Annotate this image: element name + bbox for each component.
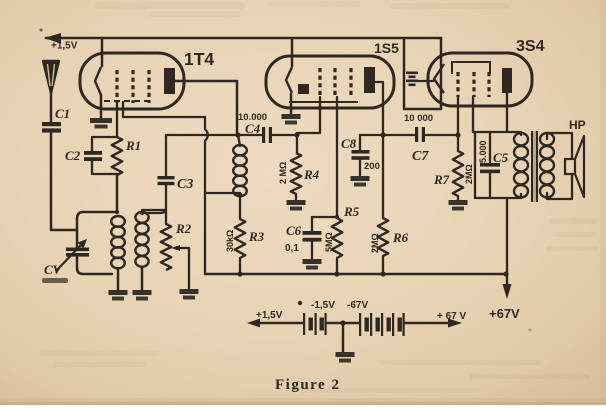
resistor R6 bbox=[370, 218, 409, 277]
tube 1S5 bbox=[266, 56, 394, 108]
wire to R3 node bbox=[205, 193, 242, 198]
ground R4 bbox=[287, 200, 306, 211]
wire secondary to speaker bbox=[547, 133, 572, 199]
wire 3S4 grid1 to C7 node bbox=[457, 97, 459, 135]
svg-text:1S5: 1S5 bbox=[374, 40, 399, 56]
junction C3 coil L2 bbox=[140, 211, 144, 215]
coil L1 tuning bbox=[111, 216, 125, 290]
label 1S5 bbox=[374, 40, 399, 56]
wire C3 to C4 node bbox=[166, 134, 238, 136]
wire filament feed 1S5 bbox=[291, 38, 294, 66]
wire 1S5 grid2 to R5 bbox=[336, 97, 338, 218]
wire battery right +67V bbox=[405, 319, 462, 328]
label battery +1,5V bbox=[256, 310, 283, 321]
svg-text:3S4: 3S4 bbox=[516, 38, 545, 55]
resistor R5 bbox=[324, 204, 360, 277]
transformer secondary bbox=[540, 133, 554, 197]
junction C6-R5 bbox=[335, 215, 339, 219]
capacitor C8 bbox=[341, 135, 383, 176]
battery B 67V bbox=[359, 313, 405, 336]
ground C8 bbox=[351, 176, 370, 187]
svg-text:+1,5V: +1,5V bbox=[256, 310, 283, 321]
ground C6 bbox=[303, 259, 322, 270]
svg-text:C3: C3 bbox=[177, 177, 193, 192]
wire 3S4 screen down bbox=[472, 97, 474, 132]
label +1,5V bbox=[51, 41, 78, 52]
wire output bottom rail bbox=[475, 197, 521, 199]
svg-text:R1: R1 bbox=[125, 138, 141, 153]
svg-text:-1,5V: -1,5V bbox=[311, 300, 335, 311]
ground R2 wiper bbox=[180, 289, 199, 300]
label 3S4 bbox=[516, 38, 545, 55]
svg-text:2MΩ: 2MΩ bbox=[370, 233, 380, 253]
ground coil L1 bbox=[109, 290, 128, 301]
wire output left leg bbox=[474, 132, 476, 198]
label battery +67V bbox=[437, 311, 467, 322]
capacitor C6 bbox=[285, 217, 337, 259]
resistor R7 bbox=[433, 135, 474, 200]
battery A 1.5V bbox=[303, 313, 327, 335]
wire 1T4 anode bbox=[175, 81, 237, 133]
wire 1S5 anode down bbox=[375, 82, 386, 218]
tank loop bottom bbox=[77, 268, 112, 274]
svg-text:+67V: +67V bbox=[489, 306, 520, 321]
filament battery tap bbox=[406, 72, 418, 87]
transformer core bbox=[531, 131, 538, 202]
potentiometer R2 bbox=[142, 210, 192, 270]
wire +67V bus bbox=[205, 273, 506, 276]
coil L2 antenna coupling bbox=[135, 212, 148, 290]
svg-text:+ 67 V: + 67 V bbox=[437, 311, 467, 322]
wire R1 to tank coil bbox=[115, 175, 119, 214]
svg-text:200: 200 bbox=[364, 161, 380, 172]
svg-text:HP: HP bbox=[569, 118, 586, 132]
capacitor C2 bbox=[65, 137, 117, 174]
svg-text:5.000: 5.000 bbox=[478, 140, 488, 163]
svg-text:+1,5V: +1,5V bbox=[51, 41, 78, 52]
svg-text:Figure 2: Figure 2 bbox=[275, 377, 340, 393]
tube 3S4 bbox=[428, 53, 532, 106]
wire battery middle bbox=[327, 320, 359, 325]
capacitor C1 bbox=[42, 106, 70, 133]
resistor R4 bbox=[278, 153, 320, 200]
svg-text:-67V: -67V bbox=[347, 300, 368, 311]
coil L3 oscillator bbox=[233, 135, 247, 219]
label 1T4 bbox=[184, 49, 214, 69]
ground R7 bbox=[449, 200, 468, 211]
svg-text:C7: C7 bbox=[412, 149, 429, 164]
svg-text:C4: C4 bbox=[245, 121, 261, 136]
svg-text:CV: CV bbox=[44, 262, 63, 277]
ground 1S5 filament bbox=[282, 94, 301, 125]
resistor R3 bbox=[225, 219, 265, 277]
label -1,5V bbox=[298, 300, 335, 311]
capacitor C4 bbox=[235, 127, 299, 143]
wire 1S5 grid1 to R4 bbox=[297, 97, 320, 153]
resistor R1 bbox=[112, 137, 141, 175]
wire 1T4 grid to R1 bbox=[116, 103, 118, 137]
wire +1.5V filament rail bbox=[44, 33, 441, 44]
R2 wiper bbox=[171, 245, 189, 289]
svg-text:R7: R7 bbox=[433, 172, 450, 187]
svg-text:R2: R2 bbox=[175, 221, 192, 236]
svg-text:30kΩ: 30kΩ bbox=[225, 230, 235, 252]
label +67V bold bbox=[489, 306, 520, 321]
wire 3S4 filament box bbox=[404, 38, 441, 109]
svg-text:C1: C1 bbox=[55, 106, 70, 121]
ground battery bbox=[336, 323, 355, 363]
antenna bbox=[43, 61, 59, 122]
label -67V bbox=[347, 300, 368, 311]
wire output top rail bbox=[473, 131, 521, 133]
svg-text:R5: R5 bbox=[343, 204, 360, 219]
wire tap to 3S4 filament bbox=[418, 80, 433, 82]
speaker HP bbox=[565, 136, 584, 197]
svg-text:2MΩ: 2MΩ bbox=[464, 164, 474, 184]
svg-text:R3: R3 bbox=[248, 229, 265, 244]
svg-text:1T4: 1T4 bbox=[184, 49, 214, 69]
label CV bbox=[42, 262, 68, 283]
svg-text:C6: C6 bbox=[286, 223, 302, 238]
svg-text:C2: C2 bbox=[65, 148, 81, 163]
wire filament feed 1T4 bbox=[101, 38, 104, 66]
wire battery left +1,5V bbox=[247, 319, 302, 328]
label C4 10.000 bbox=[238, 112, 267, 136]
ground 1T4 filament bbox=[90, 95, 112, 129]
svg-text:10 000: 10 000 bbox=[404, 113, 433, 124]
capacitor C3 bbox=[142, 135, 193, 213]
caption Figure 2 bbox=[275, 377, 340, 393]
wire 3S4 anode down bbox=[506, 93, 508, 132]
wire C1 to tank bbox=[51, 131, 77, 230]
tank loop top bbox=[77, 212, 117, 219]
svg-text:C8: C8 bbox=[341, 136, 357, 151]
svg-text:5MΩ: 5MΩ bbox=[324, 232, 334, 252]
ground coil L2 bbox=[133, 290, 152, 301]
wire +67V drop bbox=[503, 198, 512, 299]
label C7 10 000 bbox=[404, 113, 433, 164]
label HP bbox=[569, 118, 586, 132]
svg-text:C5: C5 bbox=[493, 150, 509, 165]
variable capacitor CV bbox=[56, 219, 89, 271]
wire drop with crossover hop bbox=[205, 117, 208, 274]
transformer primary bbox=[514, 132, 528, 198]
svg-text:R4: R4 bbox=[303, 167, 320, 182]
capacitor C7 bbox=[383, 127, 461, 142]
wire 1T4 screen rail bbox=[123, 102, 205, 117]
svg-text:0,1: 0,1 bbox=[285, 243, 299, 254]
svg-text:R6: R6 bbox=[392, 230, 409, 245]
tube 1T4 bbox=[80, 53, 184, 109]
capacitor C5 bbox=[478, 132, 509, 198]
svg-text:2 MΩ: 2 MΩ bbox=[278, 162, 288, 184]
